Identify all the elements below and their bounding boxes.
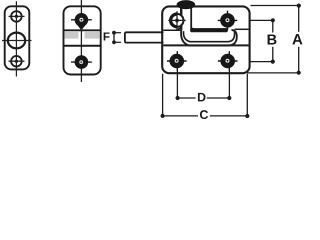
dimension D extension line right	[228, 71, 230, 99]
knob cap (dark)	[177, 1, 195, 9]
P1 top screw hole	[9, 11, 25, 22]
bolt bar (side view, protruding)	[125, 32, 164, 42]
dimension D line with dots	[176, 96, 232, 100]
P2 bottom screw (countersunk, dark)	[71, 55, 92, 69]
P2 top screw (countersunk, dark)	[71, 13, 92, 27]
dimension C extension line right	[246, 74, 248, 116]
bolt dark top strip	[190, 28, 228, 32]
knob stem	[178, 7, 194, 30]
latch body outline	[162, 6, 249, 73]
P2 pointer triangle	[78, 25, 86, 30]
dimension B extension line top	[251, 19, 273, 21]
body top-left screw hole	[168, 11, 185, 29]
body slot channel top line (right segment)	[235, 28, 249, 30]
body bottom-left screw hole (dark)	[167, 51, 187, 71]
guide plate P2 outline	[64, 6, 101, 74]
P2 staple bottom line	[64, 45, 101, 47]
dimension B line with dots	[271, 18, 275, 64]
dimension B label	[268, 35, 277, 45]
bolt handle outer outline	[181, 30, 237, 46]
dimension F line with dots	[112, 31, 121, 44]
dimension F label	[104, 32, 110, 40]
dimension B extension line bottom	[251, 61, 273, 63]
guide plate P2 centerline	[80, 0, 82, 82]
bolt handle inner line	[184, 31, 235, 42]
dimension D extension line left	[176, 71, 178, 99]
dimension A extension line bottom	[247, 72, 299, 74]
P1 center slot circle	[2, 33, 32, 49]
dimension C line with dots	[161, 114, 250, 118]
strike plate P1 outline	[5, 6, 30, 69]
dimension D label	[198, 93, 206, 102]
dimension A line with dots	[297, 4, 301, 75]
P2 staple top line	[64, 29, 101, 31]
strike plate P1 centerline	[15, 1, 17, 76]
body top-right screw hole (dark)	[218, 11, 238, 31]
P1 bottom screw hole	[9, 56, 25, 67]
body slot channel bottom line	[163, 44, 248, 46]
dimension A extension line top	[251, 5, 299, 7]
body bottom-right screw hole (dark)	[218, 51, 238, 71]
body slot channel top line (left segment)	[163, 29, 180, 31]
dimension C extension line left	[162, 74, 164, 116]
dimension A label	[292, 34, 302, 44]
dimension C label	[200, 110, 208, 119]
P2 staple shading band	[65, 32, 100, 39]
